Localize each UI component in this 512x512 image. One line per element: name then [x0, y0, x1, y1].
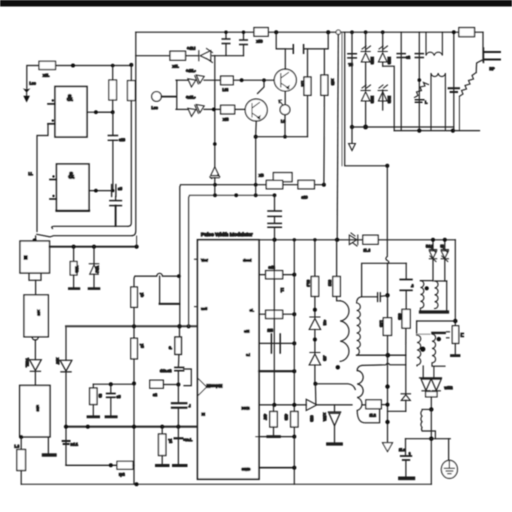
- driver -9B: [309, 353, 320, 366]
- wire c5 drop: [110, 384, 112, 393]
- node x315 y309: [313, 308, 317, 312]
- box2 pin1 nub: [52, 175, 54, 177]
- node base link: [262, 78, 266, 82]
- node x387 y404: [386, 403, 390, 407]
- capacitor ct2: [268, 223, 281, 227]
- node yB x452: [451, 129, 455, 133]
- node base branch: [240, 78, 244, 82]
- diode D4: [378, 85, 387, 101]
- wire TCRL to boxC: [34, 371, 36, 385]
- wire y384 to coil: [315, 384, 355, 390]
- wire L-t to frame: [20, 471, 22, 485]
- resistor a29: [298, 180, 314, 188]
- wire bridge lower stub: [382, 102, 384, 110]
- wire y-t to gnd: [161, 456, 163, 465]
- node 5d: [431, 238, 435, 242]
- wire cap q to riser: [304, 32, 328, 49]
- svg-text:GMD: GMD: [242, 468, 251, 472]
- node ictop x315: [313, 238, 316, 241]
- node y436 x294: [292, 435, 296, 439]
- optocoupler box1: [55, 87, 87, 138]
- resistor x4B: [321, 75, 328, 95]
- capacitor c5: [107, 394, 115, 398]
- svg-text:xB: xB: [259, 174, 264, 178]
- node y274 right: [292, 273, 296, 277]
- cap branch1 wire: [225, 32, 227, 38]
- diode d2l on W55: [199, 49, 213, 63]
- resistor ad2: [266, 271, 283, 279]
- resistor YBb: [70, 262, 77, 276]
- wire VRl to gnd: [93, 274, 95, 288]
- wire x315 stub to y405: [314, 384, 317, 405]
- svg-text:a29: a29: [302, 196, 308, 200]
- R5YJ column top: [336, 240, 338, 277]
- svg-text:&: &: [67, 93, 74, 103]
- box A bottom tab: [29, 273, 41, 280]
- svg-text:x2t: x2t: [223, 118, 229, 122]
- ground arrow Lss: [23, 88, 31, 92]
- ground bar x15A: [328, 442, 342, 445]
- zener 5t: [441, 247, 448, 262]
- svg-text:RP: RP: [490, 67, 496, 71]
- svg-text:M1B: M1B: [370, 57, 374, 65]
- divider line x342: [341, 32, 343, 166]
- resistor 1L2t: [366, 400, 381, 409]
- node bus426 c: [160, 425, 164, 429]
- wire y465 left: [66, 464, 117, 466]
- svg-text:&: &: [68, 171, 75, 181]
- wire boxA tab to boxB: [35, 280, 37, 295]
- svg-text:y5: y5: [140, 344, 144, 348]
- svg-text:T5: T5: [349, 63, 353, 67]
- wire x4B top: [323, 49, 325, 75]
- svg-text:Vref: Vref: [201, 259, 209, 263]
- long wire pair upper: [52, 226, 128, 228]
- capacitor cb1: [222, 39, 230, 44]
- resistor 5YJ: [333, 277, 340, 297]
- column x455: [454, 240, 456, 326]
- node on H1 at R1: [111, 64, 115, 68]
- ground bar boxC: [44, 453, 56, 456]
- node x387 y165.8: [385, 164, 389, 168]
- IC top wire to right: [259, 239, 455, 241]
- pin ticks left edge: [195, 259, 198, 306]
- LED L03: [280, 105, 290, 115]
- cap branch2 lower: [243, 45, 245, 56]
- node bus426 d: [176, 425, 180, 429]
- capacitor ddc-c2: [175, 367, 184, 370]
- ground bar rc-L: [174, 464, 187, 467]
- T1 polarity dot: [336, 365, 340, 369]
- node y371 right: [292, 369, 296, 373]
- bridge column left: [365, 32, 367, 127]
- diode D2: [378, 46, 387, 62]
- svg-text:97B: 97B: [310, 416, 314, 423]
- svg-text:M3B: M3B: [370, 96, 374, 104]
- node boxA top: [33, 238, 37, 242]
- box2 pin1 stub: [50, 179, 57, 181]
- wire x352 below: [351, 127, 353, 143]
- resistor L5t: [304, 77, 311, 95]
- resistor xB lower: [266, 180, 282, 188]
- T4 core bar: [432, 332, 444, 334]
- wire boxC left leg down: [20, 437, 22, 450]
- T3 right winding: [435, 281, 438, 309]
- node on H1: [71, 64, 75, 68]
- node x337 bottom: [335, 238, 339, 242]
- svg-text:+d2.l: +d2.l: [187, 47, 195, 51]
- wire 5YJ to T1L: [337, 296, 341, 300]
- node x352 bottom: [350, 125, 354, 129]
- vertical x294 lower: [293, 437, 295, 485]
- node hop end: [177, 274, 181, 278]
- wire R85B down to links: [405, 328, 407, 355]
- ground bar tB: [88, 415, 99, 418]
- svg-text:M4B: M4B: [387, 96, 391, 104]
- svg-text:yb: yb: [140, 293, 144, 297]
- column x352: [351, 32, 353, 127]
- resistor 59J: [311, 277, 318, 297]
- resistor 85B: [402, 309, 410, 328]
- wire a2 right to node: [163, 384, 178, 386]
- link curl to bus end: [136, 236, 138, 247]
- svg-text:5d.t: 5d.t: [426, 245, 433, 249]
- choke winding top: [426, 32, 442, 55]
- wire Q1 collector up: [276, 32, 285, 69]
- svg-text:x3L: x3L: [173, 65, 180, 69]
- NTC zigzag: [459, 73, 476, 97]
- T4 polarity dot left: [420, 347, 425, 352]
- node xcap top: [452, 30, 456, 34]
- resistor x2t: [221, 105, 235, 114]
- node y467 x294: [292, 466, 296, 470]
- resistor 42B: [291, 412, 298, 428]
- wire W1 y184.7: [180, 185, 324, 327]
- bridge jog wire: [383, 66, 395, 130]
- node bus1 b: [92, 245, 96, 249]
- transformer T1 left winding: [340, 301, 349, 362]
- wire cap85 to R85B: [405, 290, 407, 309]
- earth symbol: [444, 462, 454, 474]
- R59J column top: [314, 240, 316, 277]
- svg-text:s5: s5: [118, 187, 122, 191]
- svg-text:DKB: DKB: [242, 407, 250, 411]
- wire 2Ls to gnd: [405, 460, 407, 477]
- cap branch1 lower: [225, 44, 227, 56]
- wire W55 branch corner: [136, 55, 170, 57]
- wire xB7 down to bus426: [65, 372, 67, 427]
- IC U1 Pulse Width Modulator body: [198, 240, 260, 479]
- link node to Q2 top: [258, 80, 265, 93]
- T2 bottom curve to resistor: [357, 409, 379, 423]
- vertical x176: [176, 80, 178, 109]
- driver +9t: [309, 317, 320, 330]
- svg-text:3.: 3.: [169, 346, 172, 350]
- wire GMD y467.7: [259, 467, 294, 469]
- T4 left winding: [417, 335, 421, 366]
- resistor R3: [175, 337, 182, 354]
- svg-text:TCRL: TCRL: [25, 358, 29, 367]
- varistor cap: [415, 100, 423, 103]
- top bus wire y32.2: [136, 31, 483, 33]
- wire R3 to cap ddc: [177, 354, 180, 367]
- zener 5d column: [432, 240, 434, 249]
- svg-text:a2: a2: [153, 393, 157, 397]
- node bus1 a: [72, 245, 76, 249]
- box B bottom bump: [32, 337, 38, 340]
- box A inner pin mark: [24, 255, 28, 259]
- column x405 to diode: [405, 355, 407, 394]
- earth circle: [441, 460, 457, 478]
- ground bar 2Ls: [400, 476, 414, 480]
- wire riser x307: [307, 95, 309, 136]
- main column x387 upper: [386, 166, 389, 295]
- node x387 y355: [386, 353, 391, 358]
- svg-text:c23: c23: [119, 138, 125, 142]
- node at R1 bottom: [111, 110, 115, 114]
- box2 pin2 nub: [52, 195, 54, 197]
- svg-text:Lss: Lss: [30, 82, 36, 86]
- bottom wire B y130.6: [394, 130, 479, 132]
- transformer T2 winding: [357, 371, 363, 411]
- T4 core dash: [416, 333, 430, 335]
- wire 1L2t to x387: [381, 404, 387, 406]
- wire x134 down: [133, 326, 135, 338]
- wire 59J down: [314, 296, 316, 317]
- wire upper row to L3t: [204, 79, 221, 81]
- ground bar L-l: [452, 354, 460, 357]
- capacitor 22t: [271, 334, 280, 353]
- wire c5 to gnd: [110, 397, 112, 416]
- svg-text:ddc.c2: ddc.c2: [160, 369, 171, 373]
- node H1 right end: [129, 63, 133, 67]
- diode D3: [361, 85, 371, 101]
- pin wire oL y314.2: [259, 313, 294, 315]
- hop wire y276: [135, 273, 179, 276]
- ground bar 43T: [268, 435, 280, 438]
- capacitor c2in: [397, 54, 405, 58]
- capacitor cq: [293, 45, 303, 54]
- cap branch2 wire: [243, 32, 245, 39]
- wire cap chain to top wire: [274, 227, 276, 240]
- node x431 y409: [429, 407, 433, 411]
- capacitor H: [110, 201, 122, 206]
- box1 pin1 nub: [52, 99, 54, 101]
- node lower zener column: [212, 108, 216, 112]
- wire Q1 emitter to LED: [284, 91, 286, 105]
- node ictop x294: [293, 238, 296, 241]
- wire tB to gnd: [92, 405, 94, 416]
- zener 5d: [429, 247, 436, 262]
- ground bar c5: [106, 415, 116, 418]
- LED Les circle: [152, 92, 162, 102]
- wire lower row to x2t: [204, 108, 221, 110]
- pin wire dead y274.6: [259, 274, 294, 276]
- svg-text:x4B: x4B: [331, 79, 335, 86]
- node W1 x256: [254, 183, 258, 187]
- node cb1 top: [224, 31, 227, 34]
- svg-text:x2L: x2L: [43, 74, 50, 78]
- svg-text:c2: c2: [406, 56, 410, 60]
- wire xB7 column from bus326: [65, 326, 67, 360]
- wire between drivers: [314, 330, 316, 354]
- node x178 y384: [176, 383, 180, 387]
- wire 5d to T3: [432, 259, 434, 281]
- wire hop left bend into yb: [134, 276, 135, 287]
- node cap column join: [111, 189, 114, 192]
- wire R1 top: [112, 66, 114, 81]
- capacitor S series bars: [112, 185, 116, 197]
- Q2 inner marks: [252, 103, 260, 119]
- label c-l5 ticks: [447, 332, 450, 338]
- wire zener to W2: [214, 178, 216, 196]
- node ictop x336: [335, 238, 338, 241]
- box1 pin1 stub: [48, 103, 55, 105]
- wire YBb drop: [73, 247, 75, 262]
- diode D1: [361, 46, 371, 62]
- svg-text:LL: LL: [29, 172, 33, 176]
- ground arrow x352: [349, 144, 356, 151]
- node x315 y384: [313, 382, 317, 386]
- transistor Q2: [245, 99, 267, 121]
- wire x2t to Q2: [235, 108, 246, 110]
- top border bar: [0, 0, 512, 7]
- wire rcL to gnd: [177, 438, 179, 464]
- capacitor c3in: [415, 54, 423, 58]
- NTC top lead: [476, 60, 482, 72]
- node q2 bottom: [254, 135, 258, 139]
- svg-text:rp2: rp2: [119, 473, 125, 477]
- wire 43T gnd: [273, 427, 275, 436]
- svg-text:VR.l: VR.l: [95, 266, 99, 273]
- capacitor ct1: [268, 211, 281, 216]
- resistor R2 vertical: [128, 81, 136, 101]
- resistor yb: [131, 287, 138, 307]
- wire cap S to cap H: [115, 197, 117, 201]
- loop wire to swap pin: [184, 369, 192, 386]
- wire 2Ls drop: [405, 439, 407, 455]
- vertical x274 column: [273, 240, 275, 405]
- node x66 bus426: [64, 425, 68, 429]
- box1 right pin: [87, 111, 113, 113]
- resistor L5B on x387: [383, 318, 391, 336]
- node W1 zener: [213, 183, 217, 187]
- ground bar y-t: [157, 464, 169, 467]
- bridge column right: [382, 32, 384, 102]
- diode x15A: [328, 412, 340, 426]
- svg-text:c5: c5: [117, 395, 121, 399]
- resistor 1Lt: [363, 235, 378, 244]
- node top x382: [381, 30, 385, 34]
- loop vertical x159: [159, 276, 161, 304]
- wire cap85 drop: [405, 263, 407, 279]
- box2 bottom thick: [57, 210, 90, 212]
- svg-text:85B: 85B: [398, 314, 402, 321]
- node yB x419: [417, 129, 421, 133]
- node y343 right: [292, 341, 296, 345]
- svg-text:▤wap▦: ▤wap▦: [207, 383, 223, 388]
- column x387 mid: [387, 295, 389, 318]
- wire driver out down: [314, 365, 316, 384]
- node zener column: [213, 142, 217, 146]
- capacitor C23: [108, 136, 117, 141]
- optocoupler box2: [57, 164, 90, 211]
- node x387 y386: [385, 384, 389, 388]
- node y384 c5: [109, 382, 113, 386]
- svg-text:xB7: xB7: [56, 358, 60, 364]
- pin wire y371 thick: [259, 370, 294, 372]
- wire between caps: [274, 216, 276, 223]
- wire R2 top: [130, 65, 132, 81]
- wire VRl drop: [93, 247, 95, 264]
- box A: [20, 241, 50, 273]
- column x387 lower: [387, 335, 389, 442]
- svg-text:=rc.L: =rc.L: [184, 438, 193, 442]
- divider line x344: [345, 32, 388, 166]
- svg-text:wt52: wt52: [444, 386, 453, 390]
- terminal circle x337: [336, 30, 340, 34]
- capacitor rc-L: [175, 437, 183, 439]
- wire W55 right: [212, 55, 244, 57]
- vertical x294 column: [293, 240, 295, 437]
- node ictop x274: [273, 238, 277, 242]
- svg-text:1L2: 1L2: [370, 414, 376, 418]
- node cb2 top: [242, 31, 245, 34]
- plug prong1: [484, 51, 500, 53]
- svg-text:42B: 42B: [284, 414, 288, 421]
- svg-text:.l: .l: [189, 404, 191, 408]
- zener D-ref column from W55: [214, 56, 216, 167]
- capacitor mL1: [63, 441, 70, 444]
- node x431 y438: [429, 437, 433, 441]
- node W2 x256: [254, 193, 258, 197]
- resistor x3L on W55: [170, 51, 186, 60]
- svg-text:dead: dead: [243, 259, 251, 263]
- node W2 right end: [273, 193, 277, 197]
- X-cap bars: [449, 88, 459, 92]
- svg-text:L.l: L.l: [460, 333, 464, 337]
- wire Q2 collector down: [255, 121, 258, 137]
- node W2 b: [234, 193, 238, 197]
- wire R2 bottom down to curl: [128, 101, 131, 227]
- wire y411 to diode up: [388, 410, 406, 412]
- resistor R1 vertical: [109, 80, 117, 100]
- transistor Q1: [274, 69, 296, 91]
- NTC bottom lead: [458, 96, 460, 130]
- node x387 y295: [385, 293, 389, 297]
- T3 bottom bar: [421, 310, 448, 313]
- T3 left top edge: [420, 280, 433, 282]
- svg-text:+x5L•: +x5L•: [186, 96, 196, 100]
- node 5t: [443, 238, 447, 242]
- box C: [20, 385, 50, 437]
- column x419: [418, 32, 420, 130]
- bottom wire A y127: [352, 126, 454, 128]
- node y405 x273: [272, 403, 276, 407]
- capacitor loop: [378, 293, 381, 302]
- diode 1Lt on ictop wire: [349, 233, 358, 246]
- box B: [24, 295, 48, 337]
- wire y438.7: [406, 438, 451, 440]
- wire boxB to TCRL: [34, 340, 36, 360]
- wire x4B bottom to W1: [323, 95, 326, 184]
- resistor y5: [131, 338, 138, 359]
- wire L5t top: [307, 49, 309, 77]
- resistor 43T: [270, 412, 277, 428]
- svg-text:x00: x00: [37, 310, 41, 316]
- long wire pair lower: [37, 234, 132, 237]
- node W1 right end: [322, 183, 326, 187]
